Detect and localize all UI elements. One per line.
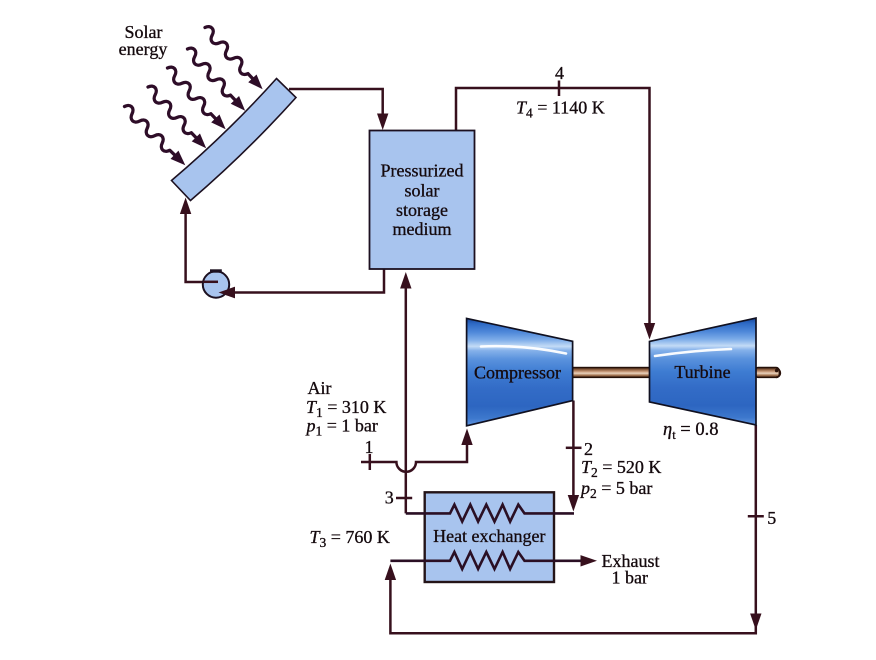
svg-text:Heat exchanger: Heat exchanger [433, 526, 545, 546]
svg-text:ηt = 0.8: ηt = 0.8 [663, 420, 718, 442]
svg-text:storage: storage [396, 200, 448, 220]
svg-text:Air: Air [308, 378, 332, 398]
svg-text:5: 5 [767, 508, 776, 528]
svg-text:1: 1 [365, 437, 374, 457]
svg-text:1 bar: 1 bar [612, 568, 648, 588]
svg-text:2: 2 [584, 439, 593, 459]
svg-text:T4 = 1140 K: T4 = 1140 K [516, 98, 605, 121]
svg-text:Compressor: Compressor [474, 363, 561, 383]
svg-text:solar: solar [405, 180, 440, 200]
svg-text:T2 = 520 K: T2 = 520 K [581, 457, 661, 480]
svg-text:3: 3 [385, 488, 394, 508]
svg-text:energy: energy [119, 39, 168, 59]
svg-text:4: 4 [555, 63, 564, 83]
svg-text:T3 = 760 K: T3 = 760 K [310, 527, 390, 550]
svg-text:Pressurized: Pressurized [381, 161, 464, 181]
svg-text:Turbine: Turbine [674, 362, 730, 382]
svg-text:p2 = 5 bar: p2 = 5 bar [579, 478, 652, 501]
svg-text:medium: medium [393, 219, 452, 239]
